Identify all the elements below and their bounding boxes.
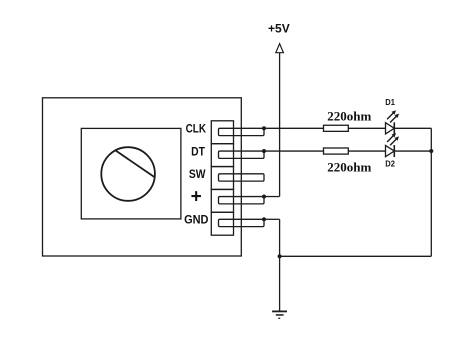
connector J1 housing cell 2	[211, 144, 233, 167]
junction dot right rail	[429, 149, 433, 153]
wire R2 to D2	[348, 150, 385, 152]
wire plus pin to +5V rail	[264, 196, 280, 198]
wire +5V vertical	[279, 53, 281, 197]
junction dot bottom	[278, 254, 282, 258]
pin 2 DT tab	[219, 151, 265, 158]
wire DT pin to R2	[264, 150, 324, 152]
resistor R2	[324, 148, 349, 154]
svg-text:+5V: +5V	[268, 22, 290, 36]
encoder body inner rectangle	[81, 128, 181, 219]
connector J1 housing cell 1	[211, 121, 233, 144]
wire GND vertical down	[279, 219, 281, 310]
wire bottom return	[280, 255, 432, 257]
junction dot pin 5	[262, 217, 266, 221]
rotary encoder module outline	[43, 98, 242, 256]
svg-text:220ohm: 220ohm	[327, 109, 371, 124]
junction dot pin 4	[262, 194, 266, 198]
wire R1 to D1	[348, 127, 385, 129]
wire CLK pin to R1	[264, 127, 324, 129]
encoder knob circle	[101, 147, 155, 201]
pin 1 CLK tab	[219, 128, 265, 135]
pin 4 plus tab	[219, 197, 265, 204]
encoder knob indicator line	[116, 150, 155, 177]
connector J1 housing cell 5	[211, 212, 233, 235]
svg-text:220ohm: 220ohm	[327, 160, 371, 175]
+5V power symbol arrow	[276, 44, 284, 53]
svg-text:GND: GND	[184, 213, 209, 227]
LED D1	[386, 110, 400, 134]
svg-text:DT: DT	[191, 144, 205, 158]
junction dot pin 2	[262, 149, 266, 153]
pin 5 GND tab	[219, 219, 265, 226]
wire GND pin right	[264, 218, 280, 220]
connector J1 housing cell 3	[211, 167, 233, 190]
svg-text:CLK: CLK	[186, 122, 207, 136]
junction dot pin 1	[262, 126, 266, 130]
wire D1 to right rail	[394, 127, 431, 129]
ground	[272, 311, 287, 320]
LED D2	[386, 133, 400, 157]
resistor R1	[324, 125, 349, 131]
svg-text:+: +	[191, 187, 202, 208]
svg-text:D2: D2	[385, 159, 395, 169]
pin 3 SW tab	[219, 174, 265, 181]
svg-text:D1: D1	[385, 97, 395, 107]
wire D2 to right rail	[394, 150, 431, 152]
wire right rail vertical	[430, 128, 432, 256]
svg-text:SW: SW	[189, 167, 206, 181]
connector J1 housing cell 4	[211, 189, 233, 212]
